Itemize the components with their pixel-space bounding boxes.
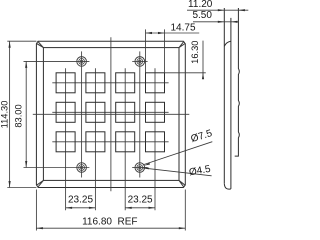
dim 5.50 arrow left-pointing	[231, 21, 238, 23]
column centerline col2	[94, 68, 96, 210]
dim 16.30 arrow up	[202, 73, 204, 80]
plate horizontal mid centerline	[33, 113, 190, 115]
corner fold lines bottom-left	[37, 180, 44, 187]
dim 114.30 line	[9, 41, 11, 187]
svg-text:Ø4.5: Ø4.5	[188, 164, 212, 179]
screw hole horizontal centerline top right	[132, 60, 147, 62]
dim 14.75 arrow left	[146, 32, 153, 34]
column centerline col4	[154, 68, 156, 210]
dim 114.30 arrow up	[9, 41, 11, 48]
dim 116.80 right extension line	[184, 190, 186, 231]
dim 11.20 line	[187, 9, 248, 11]
screw hole top-right	[135, 57, 145, 67]
dim 83.00 arrow up	[25, 61, 27, 68]
dim 116.80 left extension line	[35, 190, 37, 231]
side view bottom curve	[224, 184, 231, 189]
side view back rim line	[230, 18, 232, 189]
svg-text:23.25: 23.25	[128, 195, 153, 206]
dim 116.80 arrow left	[36, 227, 43, 229]
dim 83.00 line	[25, 61, 27, 167]
corner fold lines bottom-right	[179, 180, 185, 187]
dim 14.75 line	[146, 32, 200, 34]
side view boss line with latch bumps	[235, 8, 240, 156]
keystone opening r1c4	[146, 73, 165, 93]
dim 23.25 right arrow left	[125, 207, 132, 209]
corner fold lines top-right	[179, 41, 185, 47]
leader dia 7.5 arrow	[144, 163, 150, 166]
dim 116.80 line	[36, 227, 185, 229]
keystone opening r3c2	[86, 132, 105, 152]
dim 83.00 arrow down	[25, 161, 27, 168]
dim 114.30 top extension line	[7, 40, 36, 42]
dim 23.25 left arrow right	[89, 207, 96, 209]
keystone opening r1c1	[56, 73, 75, 93]
leader dia 4.5 arrow	[143, 168, 149, 170]
keystone opening r2c1	[56, 102, 75, 122]
dim 16.30 extension line (from keystone top edge)	[165, 72, 206, 74]
dim 14.75 extension line right	[164, 29, 166, 72]
plate outer outline	[36, 41, 185, 187]
screw hole vertical centerline left	[81, 51, 83, 177]
svg-text:116.80 REF: 116.80 REF	[82, 216, 137, 227]
screw hole bottom-right	[135, 163, 145, 173]
screw hole horizontal centerline top (extends to 83.00 dim)	[24, 60, 90, 62]
keystone opening r2c3	[116, 102, 135, 122]
dim 16.30 line	[202, 41, 204, 79]
screw hole horizontal centerline bottom (extends to 83.00 dim)	[24, 167, 90, 169]
screw hole top-left	[77, 57, 87, 67]
screw hole bottom-left	[77, 163, 87, 173]
keystone opening r3c1	[56, 132, 75, 152]
svg-text:11.20: 11.20	[188, 0, 213, 10]
row centerline row2	[52, 111, 168, 113]
dim 23.25 left arrow left	[66, 207, 73, 209]
dim 23.25 right line	[125, 207, 155, 209]
svg-text:16.30: 16.30	[190, 41, 200, 64]
dim 5.50 line	[193, 21, 238, 23]
side view top curve	[224, 41, 231, 46]
plate vertical mid centerline	[110, 37, 112, 191]
dim 23.25 right arrow right	[149, 207, 156, 209]
dim 14.75 arrow right	[158, 32, 165, 34]
svg-text:83.00: 83.00	[13, 104, 23, 127]
keystone opening r3c3	[116, 132, 135, 152]
keystone opening r1c3	[116, 73, 135, 93]
dim 116.80 arrow right	[179, 227, 186, 229]
row centerline row1	[52, 82, 168, 84]
dim 114.30 bottom extension line	[7, 187, 36, 189]
column centerline col1	[65, 68, 67, 210]
svg-text:23.25: 23.25	[68, 195, 93, 206]
leader line dia 4.5	[143, 168, 212, 176]
inner raised rectangle	[43, 48, 179, 181]
dim 114.30 arrow down	[9, 181, 11, 188]
corner fold lines top-left	[37, 41, 44, 47]
dim 14.75 extension line left	[145, 29, 147, 72]
keystone opening r2c2	[86, 102, 105, 122]
dim 23.25 left line	[66, 207, 96, 209]
row centerline row3	[52, 141, 168, 143]
keystone opening r3c4	[146, 132, 165, 152]
svg-text:14.75: 14.75	[170, 23, 195, 34]
dim 11.20 arrow right-pointing	[218, 9, 225, 11]
svg-text:114.30: 114.30	[0, 101, 9, 129]
screw hole vertical centerline right	[139, 51, 141, 177]
leader line dia 7.5	[144, 142, 213, 165]
svg-text:5.50: 5.50	[192, 10, 212, 21]
column centerline col3	[124, 68, 126, 210]
keystone opening r1c2	[86, 73, 105, 93]
dim 11.20 arrow left-pointing	[238, 9, 245, 11]
screw hole horizontal centerline bottom right	[132, 167, 147, 169]
side view face line	[223, 8, 225, 184]
keystone opening r2c4	[146, 102, 165, 122]
dim 5.50 arrow right-pointing	[218, 21, 225, 23]
